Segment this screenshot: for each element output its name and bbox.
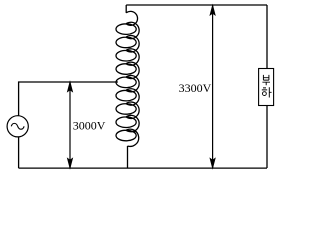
svg-text:3000V: 3000V xyxy=(73,118,106,132)
svg-text:3300V: 3300V xyxy=(179,81,212,95)
